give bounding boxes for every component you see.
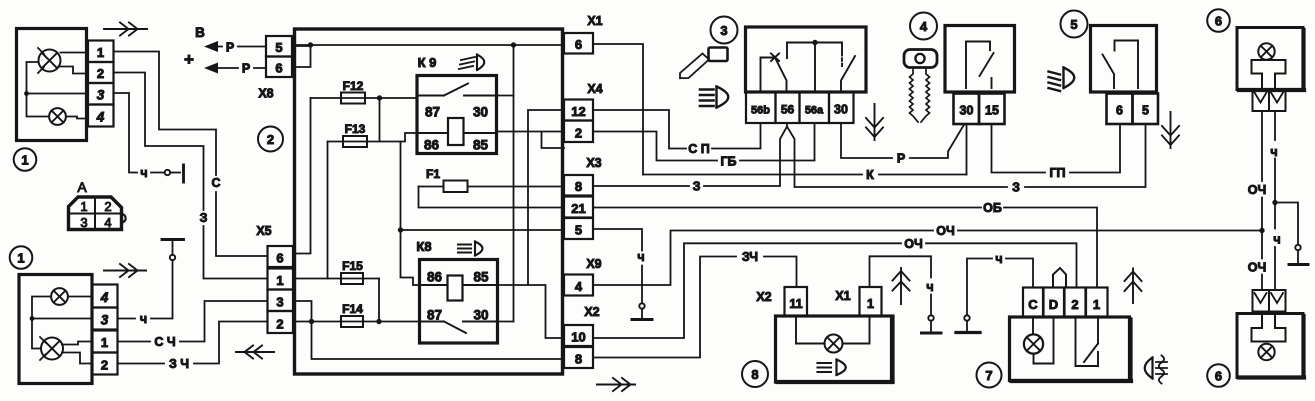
relay K8 label and low-beam icon — [416, 239, 482, 256]
wire F1 to X3-21 — [419, 187, 565, 208]
continuation arrow (left of indicator ground) — [893, 268, 910, 304]
svg-text:ч: ч — [140, 166, 147, 180]
component 1: right headlamp unit (body) — [19, 275, 92, 384]
svg-text:87: 87 — [427, 308, 442, 323]
svg-text:3: 3 — [97, 88, 105, 103]
svg-text:ч: ч — [140, 312, 147, 326]
connector X3 pin 21 — [564, 197, 593, 218]
high beam icon (indicator) — [818, 360, 846, 376]
svg-text:21: 21 — [571, 201, 585, 216]
connector X3 pin 5 — [564, 218, 593, 239]
junction of F12/F13 outputs — [377, 95, 417, 141]
svg-text:ч: ч — [637, 250, 644, 264]
circled designator 2 (mounting block) — [258, 127, 283, 152]
wire K9-30 to battery rail — [497, 95, 514, 97]
svg-text:4: 4 — [920, 19, 928, 34]
relay K9 contact 87-30 — [417, 84, 497, 120]
svg-text:F14: F14 — [342, 302, 363, 316]
indicator connector X2 pin 11 — [785, 287, 808, 316]
ignition switch pin 15 — [979, 94, 1005, 125]
junction dot ОЧ line to rear lamps — [1259, 228, 1264, 233]
label Х1 (indicator) — [835, 289, 850, 303]
headlamp 1 pin 2 — [88, 62, 114, 83]
wire X1-6 to К line — [593, 44, 643, 175]
wire С: headlamp1 pin1 to X5-6 — [114, 52, 268, 257]
svg-text:6: 6 — [575, 37, 582, 52]
fog switch body — [1010, 317, 1132, 381]
label С on wire — [211, 176, 220, 190]
svg-text:ОЧ: ОЧ — [1248, 261, 1267, 275]
headlamp 1 internal wiring — [24, 53, 88, 119]
svg-text:2: 2 — [276, 317, 283, 332]
svg-text:6: 6 — [275, 61, 282, 76]
arrow to battery, wire Р (X8-6) — [204, 62, 266, 76]
direction arrow (upper left) — [104, 23, 147, 36]
svg-text:D: D — [1049, 297, 1058, 312]
ignition switch pin 30 — [954, 94, 980, 125]
component 1: left headlamp unit (body) — [17, 29, 87, 141]
wire X2-8 / ЗЧ to indicator lamp X2-11 — [593, 250, 797, 358]
body ground bar (lower headlamp) — [162, 238, 184, 241]
bottom rear lamp bulb — [1258, 344, 1274, 360]
svg-text:4: 4 — [575, 279, 583, 294]
ground bar (indicator) — [922, 332, 942, 335]
fuse F1 — [419, 167, 565, 192]
circled designator 7 (fog switch) — [977, 363, 1002, 388]
continuation arrow (right of column switch) — [866, 104, 883, 140]
wire К to ignition switch 30 — [643, 168, 967, 182]
wire X4-12 / СП to column switch 56b — [593, 110, 761, 156]
headlamp 2 position lamp bulb — [51, 288, 68, 305]
connector X4 pin 2 — [564, 121, 593, 143]
svg-text:4: 4 — [104, 215, 111, 230]
svg-text:З: З — [1012, 181, 1020, 195]
svg-text:30: 30 — [834, 103, 848, 117]
circled designator 6 (bottom rear lamp) — [1207, 364, 1230, 387]
headlamp 2 pin 4 — [92, 285, 118, 308]
bottom rear lamp connector (heated) — [1253, 290, 1286, 312]
svg-text:F12: F12 — [343, 79, 364, 93]
svg-text:К: К — [866, 168, 874, 182]
svg-text:56a: 56a — [805, 105, 824, 117]
circled designator 5 (light switch) — [1061, 11, 1088, 38]
headlamp 2 internal wiring — [30, 297, 92, 364]
wire X4-12 to K8-85 — [528, 110, 564, 285]
label Х8 — [258, 87, 273, 101]
label Х4 — [587, 82, 602, 96]
label Х2 (indicator) — [756, 290, 771, 304]
relay K9 coil 86-85 — [417, 118, 497, 153]
fog switch contact — [1076, 317, 1099, 366]
svg-text:5: 5 — [275, 40, 282, 55]
connector А label — [77, 179, 87, 195]
svg-text:1: 1 — [101, 335, 108, 350]
svg-text:C: C — [1028, 297, 1038, 312]
fuse F15 — [328, 259, 380, 284]
circled designator 6 (top rear lamp) — [1207, 9, 1230, 32]
connector X5 pin 6 — [268, 246, 294, 267]
wire ГП: ignition 15 to light switch 6 — [992, 124, 1121, 180]
svg-text:Р: Р — [226, 41, 234, 55]
wire X3-5 / ч to ground — [593, 229, 645, 303]
headlamp 2 pin 3 — [92, 308, 118, 330]
svg-text:С Ч: С Ч — [154, 335, 175, 349]
component 2: mounting block border — [295, 29, 563, 374]
single-pin connector on X3-5 ground wire — [639, 303, 644, 317]
ground bar (rear lamps) — [1289, 263, 1308, 266]
svg-text:F15: F15 — [342, 259, 363, 273]
svg-text:Х2: Х2 — [756, 290, 771, 304]
wire K8-30 to battery rail — [498, 321, 514, 323]
indicator connector X1 pin 1 — [860, 287, 882, 316]
bottom rear lamp body — [1237, 314, 1304, 378]
svg-text:Х8: Х8 — [258, 87, 273, 101]
svg-text:2: 2 — [267, 132, 274, 147]
headlamp 1 pin 3 — [88, 83, 114, 105]
wire ЗЧ: headlamp2 pin2 to X5-2 — [118, 322, 268, 372]
label З on wire — [200, 211, 208, 225]
wire З: headlamp1 pin2 to X5-1 — [114, 73, 268, 279]
top rear lamp bulb — [1258, 43, 1274, 59]
svg-text:В: В — [195, 25, 205, 40]
svg-text:1: 1 — [1093, 297, 1100, 312]
svg-text:1: 1 — [80, 199, 87, 214]
svg-text:6: 6 — [1116, 104, 1123, 118]
column switch body — [746, 27, 867, 92]
direction arrow (lower left) — [104, 264, 146, 277]
connector X5 pin 1 — [268, 269, 294, 290]
label Х5 — [256, 224, 271, 238]
top rear lamp holder — [1252, 60, 1286, 90]
indicator lamp body — [776, 316, 894, 382]
fog switch indicator lamp — [1024, 317, 1054, 364]
single-pin connector on lower ground wire — [170, 240, 175, 261]
connector X8 pin 6 — [266, 57, 292, 78]
circled designator 3 (column switch) — [711, 17, 738, 44]
bottom rear lamp holder — [1252, 312, 1286, 342]
svg-text:ГБ: ГБ — [720, 155, 736, 169]
wire ОЧ: top lamp down to junction — [1248, 111, 1267, 231]
svg-text:Х2: Х2 — [584, 305, 599, 319]
svg-text:Р: Р — [242, 62, 250, 76]
svg-text:5: 5 — [575, 223, 582, 238]
wire X8-5 into block — [292, 45, 311, 47]
svg-text:ОЧ: ОЧ — [936, 224, 955, 238]
fog switch pin 2 — [1065, 288, 1086, 318]
svg-text:ОБ: ОБ — [983, 201, 1002, 215]
svg-text:2: 2 — [1071, 297, 1078, 312]
svg-text:8: 8 — [575, 179, 582, 194]
wire X4-2 / ГБ to column switch 56a — [593, 123, 815, 169]
wire ground node to X3-5 — [401, 229, 565, 231]
wire ч down to bottom lamp — [1273, 203, 1280, 291]
wire K9-85 to X4-2 — [497, 132, 565, 149]
svg-text:ч: ч — [995, 252, 1002, 266]
continuation arrow (above fog switch) — [1125, 269, 1142, 304]
arrow to battery, wire Р (X8-5) — [204, 41, 266, 55]
svg-text:2: 2 — [575, 126, 582, 141]
connector X8 pin 5 — [266, 36, 292, 57]
svg-text:1: 1 — [867, 297, 874, 311]
connector А face view (2x2) — [69, 197, 126, 230]
svg-text:З: З — [693, 180, 701, 194]
low beam icon (component 5) — [1049, 68, 1075, 92]
block feed line from X8 to X1-6 — [295, 42, 565, 47]
connector X2 pin 8 — [564, 347, 593, 368]
junction X5-2/X5-3 node — [293, 301, 564, 359]
svg-text:4: 4 — [96, 110, 105, 125]
svg-text:30: 30 — [473, 105, 488, 120]
wire ч: headlamp1 pin3 to body ground — [114, 93, 165, 173]
fog switch ground terminal — [964, 252, 1033, 331]
light switch body — [1091, 26, 1157, 93]
rear fog lamp icon — [1145, 356, 1167, 384]
svg-text:К8: К8 — [416, 239, 431, 254]
wire Р: column switch 30 to ignition switch 30 — [841, 123, 964, 166]
svg-text:15: 15 — [985, 104, 999, 118]
svg-text:Х9: Х9 — [586, 257, 601, 271]
steering column lever icon — [680, 48, 728, 79]
svg-text:ч: ч — [926, 280, 933, 294]
relay K9 body — [417, 76, 497, 154]
wire ч: headlamp2 pin3 to body ground — [118, 260, 173, 326]
label Х2 — [584, 305, 599, 319]
svg-text:8: 8 — [751, 367, 758, 382]
svg-text:8: 8 — [575, 352, 582, 367]
wire З from switch 56 to light switch 5 (right fork) — [787, 124, 1146, 195]
svg-text:Х4: Х4 — [587, 82, 602, 96]
wire X3-21 / ОБ to fog switch pin 1 — [593, 201, 1097, 288]
circled designator 4 (ignition switch) — [910, 13, 937, 40]
top rear lamp body — [1237, 28, 1304, 91]
label Х3 — [586, 156, 601, 170]
svg-text:5: 5 — [1070, 17, 1077, 32]
ignition switch internal contact — [966, 42, 994, 89]
label В (battery feed) — [195, 25, 205, 40]
connector X4 pin 12 — [564, 100, 593, 121]
svg-text:5: 5 — [1142, 104, 1149, 118]
svg-text:Х1: Х1 — [835, 289, 850, 303]
direction arrow (left of X5) — [236, 346, 274, 359]
ignition switch body — [945, 26, 1015, 93]
svg-text:ЗЧ: ЗЧ — [742, 250, 758, 264]
single-pin connector (rear lamps ground) — [1295, 245, 1300, 263]
svg-text:Х5: Х5 — [256, 224, 271, 238]
svg-text:85: 85 — [473, 138, 489, 153]
wire ч: top lamp to ground connector — [1270, 111, 1277, 203]
headlamp 2 pin 2 — [92, 353, 118, 375]
svg-text:1: 1 — [17, 251, 24, 266]
svg-text:К 9: К 9 — [418, 55, 437, 70]
svg-text:6: 6 — [1215, 369, 1222, 384]
circled designator 8 (indicator lamp) — [742, 361, 768, 387]
connector X1 pin 6 — [564, 33, 593, 54]
column switch pin 56b — [746, 92, 776, 123]
svg-text:F13: F13 — [345, 122, 366, 136]
svg-text:4: 4 — [100, 290, 109, 305]
ground bar (X3-5) — [632, 318, 652, 321]
label Х1 — [587, 14, 602, 28]
connector X9 pin 4 — [564, 275, 593, 296]
headlamp 1 pin 1 — [88, 41, 114, 63]
connector X3 pin 8 — [564, 175, 593, 196]
battery rail vertical (X8 net) — [513, 45, 515, 322]
svg-text:С: С — [211, 176, 220, 190]
wire ч: indicator X1-1 to ground — [870, 256, 934, 315]
indicator lamp bulb and wiring — [796, 316, 870, 353]
connector X5 pin 3 — [268, 290, 294, 312]
svg-text:12: 12 — [571, 104, 585, 119]
svg-text:1: 1 — [21, 153, 28, 168]
connector X2 pin 10 — [564, 325, 593, 346]
fog switch pin 1 — [1086, 288, 1108, 318]
svg-text:3: 3 — [276, 295, 283, 310]
svg-text:ОЧ: ОЧ — [1248, 183, 1267, 197]
light switch pin 6 — [1107, 94, 1133, 125]
wire ОЧ down to bottom lamp — [1248, 231, 1267, 291]
svg-text:87: 87 — [425, 105, 440, 120]
light switch pin 5 — [1133, 94, 1159, 125]
svg-text:Х1: Х1 — [587, 14, 602, 28]
svg-text:2: 2 — [101, 358, 108, 373]
svg-text:30: 30 — [473, 308, 488, 323]
junction dot on ч wire — [1272, 200, 1298, 244]
wire X8-6 riser into block — [292, 45, 311, 67]
relay K8 contact 87-30 — [420, 308, 498, 334]
light switch internal contact — [1103, 41, 1139, 89]
relay K9 label and high-beam icon — [418, 55, 485, 71]
single-pin connector (indicator ground) — [928, 315, 933, 331]
fuse F13 — [328, 122, 418, 147]
svg-text:ОЧ: ОЧ — [904, 237, 923, 251]
single-pin connector on ground wire — [165, 170, 180, 175]
svg-text:86: 86 — [424, 138, 440, 153]
svg-text:2: 2 — [97, 66, 104, 81]
svg-text:Х3: Х3 — [586, 156, 601, 170]
label ч on ground wire — [140, 166, 147, 180]
relay K8 body — [420, 260, 498, 344]
svg-text:3: 3 — [80, 215, 87, 230]
headlamp 2 high/low beam bulb — [40, 337, 63, 360]
column switch pin 56a — [800, 92, 830, 123]
top rear lamp connector (heated) — [1253, 90, 1286, 112]
svg-text:+: + — [184, 50, 194, 69]
headlamp 1 position lamp bulb — [49, 108, 66, 125]
headlamp 2 pin 1 — [92, 331, 118, 353]
wire F12 input to X5-6 — [293, 98, 311, 254]
svg-text:3: 3 — [101, 313, 109, 328]
wire X9-4 / ОЧ to rear lamps — [593, 224, 1262, 285]
plus sign — [184, 50, 194, 69]
svg-text:56b: 56b — [751, 105, 770, 117]
column switch internal contacts — [761, 40, 856, 92]
wire X2-10 / ОЧ to fog switch pin 2 — [593, 237, 1077, 338]
svg-text:F1: F1 — [426, 167, 440, 181]
svg-text:ч: ч — [1270, 145, 1277, 159]
high beam icon (component 3) — [700, 87, 728, 108]
headlamp 1 pin 4 — [88, 105, 114, 127]
svg-text:ГП: ГП — [1049, 166, 1065, 180]
svg-text:ч: ч — [1273, 233, 1280, 247]
svg-text:2: 2 — [104, 199, 111, 214]
label Х9 — [586, 257, 601, 271]
svg-text:Р: Р — [897, 152, 905, 166]
connector X5 pin 2 — [268, 311, 294, 333]
svg-text:З Ч: З Ч — [169, 357, 189, 371]
svg-text:6: 6 — [276, 251, 283, 266]
svg-text:86: 86 — [427, 270, 443, 285]
fuse F14 — [293, 302, 420, 327]
svg-text:А: А — [77, 179, 87, 195]
svg-text:56: 56 — [781, 103, 795, 117]
svg-text:85: 85 — [473, 270, 489, 285]
direction arrow (below block) — [597, 378, 635, 391]
fuse F12 — [311, 79, 380, 104]
wire F13 input / X5-1 / F15 vertical — [293, 142, 328, 279]
svg-text:З: З — [200, 211, 208, 225]
wire X3-8 / З to column switch 56 (left fork) — [593, 123, 787, 194]
ground node of relay coils — [398, 142, 420, 286]
svg-text:С П: С П — [688, 142, 710, 156]
svg-text:10: 10 — [571, 330, 585, 345]
svg-text:1: 1 — [97, 45, 104, 60]
ground bar (fog switch) — [956, 331, 980, 334]
svg-text:11: 11 — [789, 297, 802, 311]
fog switch mounting tab — [1053, 268, 1066, 288]
junction F15 output on F14 line — [376, 279, 381, 325]
headlamp 1 high/low beam bulb — [38, 48, 61, 73]
wire СЧ: headlamp2 pin1 to X5-3 — [118, 301, 268, 349]
relay K8 coil 86-85 — [420, 270, 498, 301]
wire K8-85 to X2-10 — [498, 285, 565, 338]
fog switch pin C — [1023, 288, 1043, 318]
body ground bar (upper headlamp) — [182, 165, 185, 182]
circled designator 1 (upper headlamp) — [14, 148, 37, 171]
svg-text:3: 3 — [720, 23, 727, 38]
column switch pin 56 — [776, 92, 800, 123]
svg-text:1: 1 — [276, 273, 283, 288]
svg-text:30: 30 — [960, 104, 974, 118]
svg-text:6: 6 — [1215, 14, 1222, 29]
circled designator 1 (lower headlamp) — [10, 246, 33, 269]
continuation arrow (right of light switch) — [1162, 112, 1179, 148]
column switch pin 30 — [829, 92, 854, 123]
svg-text:7: 7 — [985, 368, 992, 383]
ignition key icon — [904, 50, 937, 123]
wire ignition 30 down to К line — [966, 124, 968, 175]
fog switch pin D — [1044, 288, 1065, 318]
